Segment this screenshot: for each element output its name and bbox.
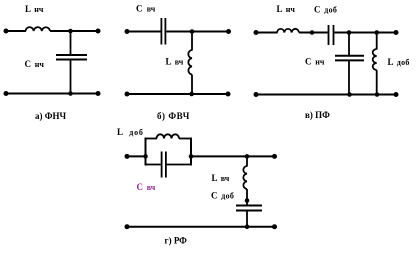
wire bottom rail (filter b) [126, 93, 229, 95]
capacitor C вч (filter b) [161, 18, 165, 45]
svg-text:в) ПФ: в) ПФ [305, 110, 330, 120]
wire top rail right segment (filter a) [50, 30, 99, 32]
tank left bar (filter d) [145, 138, 147, 166]
node bottom-left terminal (filter d) [125, 224, 130, 229]
wire top rail segment 1 (filter c) [255, 32, 278, 34]
svg-text:С нч: С нч [305, 57, 325, 67]
node output terminal top-right (filter a) [96, 29, 101, 34]
inductor L доб (filter d) [157, 134, 180, 138]
node bottom junction L доб (filter c) [375, 92, 380, 97]
inductor L нч (filter c) [277, 29, 299, 33]
svg-text:С доб: С доб [314, 5, 337, 15]
svg-text:L доб: L доб [388, 57, 410, 67]
svg-text:L вч: L вч [212, 173, 230, 183]
node above capacitor (filter d) [245, 198, 250, 203]
wire top rail segment 2 (filter c) [299, 32, 328, 34]
inductor L нч (filter a) [26, 27, 50, 31]
wire down to C нч (filter c) [348, 33, 350, 56]
node output terminal (filter b) [226, 29, 231, 34]
node output terminal (filter c) [394, 30, 399, 35]
wire tank top left (filter d) [146, 138, 158, 140]
node bottom junction C нч (filter c) [347, 92, 352, 97]
node input terminal top-left (filter a) [4, 29, 9, 34]
svg-text:L нч: L нч [25, 4, 44, 14]
wire down to L доб (filter c) [376, 33, 378, 50]
wire tank bottom right (filter d) [167, 164, 191, 166]
capacitor C нч (filter c) [335, 56, 364, 61]
wire inductor to bottom rail (filter b) [191, 75, 193, 95]
wire inductor to capacitor (filter d) [246, 189, 248, 206]
node between inductor and capacitor (filter c) [310, 30, 315, 35]
node tank left junction (filter d) [143, 154, 148, 159]
wire C нч to bottom rail (filter c) [348, 60, 350, 94]
node bottom-right terminal (filter b) [226, 92, 231, 97]
node junction top rail (filter a) [68, 29, 73, 34]
node bottom junction (filter d) [245, 224, 250, 229]
wire top rail left segment (filter a) [5, 30, 26, 32]
svg-text:б) ФВЧ: б) ФВЧ [157, 111, 190, 121]
node junction branch (filter d) [245, 154, 250, 159]
capacitor С доб (filter d) [236, 206, 262, 211]
svg-text:С нч: С нч [25, 59, 45, 69]
wire vertical to capacitor (filter a) [70, 31, 72, 55]
wire junction down to inductor (filter d) [246, 156, 248, 166]
node bottom-right terminal (filter c) [394, 92, 399, 97]
node bottom-right terminal (filter d) [272, 224, 277, 229]
svg-text:L вч: L вч [166, 57, 184, 67]
wire main left segment (filter d) [126, 155, 146, 157]
svg-text:С вч: С вч [136, 4, 156, 14]
node output terminal (filter d) [272, 154, 277, 159]
svg-text:L нч: L нч [277, 4, 296, 14]
capacitor C нч (filter a) [56, 55, 87, 60]
node input terminal (filter b) [125, 29, 130, 34]
node tank right junction (filter d) [189, 154, 194, 159]
wire bottom rail (filter c) [255, 94, 397, 96]
wire bottom rail (filter d) [126, 226, 275, 228]
node bottom junction (filter a) [68, 91, 73, 96]
svg-text:а) ФНЧ: а) ФНЧ [35, 111, 66, 121]
node bottom-left terminal (filter a) [4, 91, 9, 96]
wire junction down to inductor (filter b) [191, 32, 193, 51]
node junction L доб branch (filter c) [374, 30, 379, 35]
wire bottom rail (filter a) [5, 93, 99, 95]
tank right bar (filter d) [190, 138, 192, 166]
wire top rail right segment (filter b) [166, 31, 229, 33]
wire top rail left segment (filter b) [126, 31, 161, 33]
node bottom-left terminal (filter c) [254, 92, 259, 97]
wire L доб to bottom rail (filter c) [376, 70, 378, 95]
inductor L вч (filter b) [188, 50, 192, 75]
node junction top rail (filter b) [190, 29, 195, 34]
node input terminal (filter d) [125, 154, 130, 159]
wire capacitor to bottom rail (filter a) [70, 60, 72, 94]
svg-text:С вч: С вч [137, 182, 156, 192]
wire tank bottom left (filter d) [146, 164, 161, 166]
capacitor С доб (filter c) [329, 25, 334, 45]
wire capacitor to bottom rail (filter d) [246, 211, 248, 227]
svg-text:г) РФ: г) РФ [165, 236, 188, 246]
wire top rail segment 3 (filter c) [334, 32, 397, 34]
node bottom-left terminal (filter b) [125, 92, 130, 97]
node bottom-right terminal (filter a) [96, 91, 101, 96]
node input terminal (filter c) [254, 30, 259, 35]
wire tank top right (filter d) [179, 138, 191, 140]
node junction C нч branch (filter c) [347, 30, 352, 35]
wire main right segment (filter d) [191, 155, 275, 157]
inductor L вч (filter d) [243, 166, 247, 189]
inductor L доб (filter c) [373, 49, 377, 70]
capacitor С вч (filter d) [162, 152, 166, 178]
svg-text:С доб: С доб [211, 191, 234, 201]
node bottom junction (filter b) [189, 92, 194, 97]
svg-text:L доб: L доб [117, 127, 144, 137]
